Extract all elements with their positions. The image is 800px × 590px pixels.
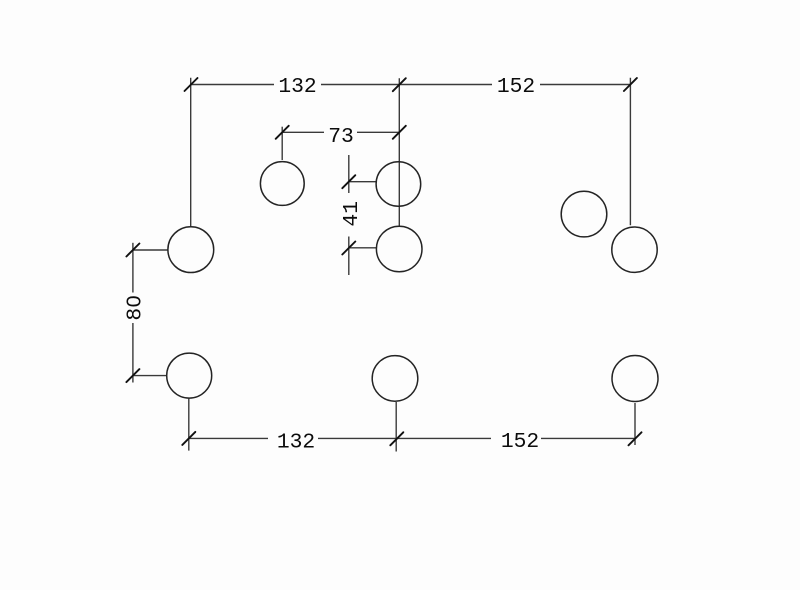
wire extension line middle xyxy=(398,78,400,226)
hole circle A2 xyxy=(376,162,421,207)
tick top-middle xyxy=(393,78,406,91)
tick top-left xyxy=(185,78,198,91)
tick bottom-middle xyxy=(390,432,403,445)
wire 41-dim line upper xyxy=(348,155,350,193)
hole circle A3 xyxy=(376,226,422,272)
wire extension line right xyxy=(629,78,631,226)
wire 80-dim stub upper xyxy=(133,249,168,251)
tick 73-left xyxy=(276,126,289,139)
tick 41-lower xyxy=(342,242,355,255)
svg-text:152: 152 xyxy=(501,430,539,454)
wire bottom dimension line segment left xyxy=(189,437,268,439)
svg-text:132: 132 xyxy=(278,75,316,99)
wire top dimension line segment middle xyxy=(321,84,492,86)
hole circle C2 xyxy=(372,356,418,402)
tick 80-upper xyxy=(126,244,139,257)
tick 73-right xyxy=(393,126,406,139)
wire 73-dim extension line xyxy=(281,127,283,160)
wire 73-dim line right xyxy=(357,131,399,133)
tick 80-lower xyxy=(126,369,139,382)
wire bottom extension left xyxy=(188,399,190,451)
wire 41-dim stub upper xyxy=(349,181,376,183)
wire 80-dim stub lower xyxy=(133,375,167,377)
wire bottom extension middle xyxy=(395,402,397,452)
hole circle A1 xyxy=(260,162,304,206)
wire 41-dim line lower xyxy=(348,237,350,276)
tick top-right xyxy=(624,78,637,91)
wire 80-dim line lower xyxy=(132,323,134,383)
wire 41-dim stub lower xyxy=(349,247,377,249)
hole circle C1 xyxy=(167,353,212,398)
wire extension line left xyxy=(190,78,192,227)
svg-text:132: 132 xyxy=(277,430,315,454)
svg-text:152: 152 xyxy=(497,75,535,99)
svg-text:80: 80 xyxy=(123,295,147,321)
wire bottom extension right xyxy=(634,403,636,445)
hole circle A4 xyxy=(561,191,607,237)
hole circle B1 xyxy=(168,227,214,273)
tick bottom-left xyxy=(182,432,195,445)
wire top dimension line segment right xyxy=(540,84,630,86)
wire top dimension line segment left xyxy=(191,84,274,86)
wire bottom dimension line segment middle xyxy=(318,437,491,439)
tick bottom-right xyxy=(629,432,642,445)
wire 80-dim line upper xyxy=(132,243,134,293)
wire 73-dim line left xyxy=(282,131,324,133)
white cover over mono dotted zero xyxy=(131,299,135,303)
tick 41-upper xyxy=(342,175,355,188)
svg-text:73: 73 xyxy=(328,125,354,149)
svg-text:41: 41 xyxy=(340,201,364,227)
hole circle C3 xyxy=(612,356,658,402)
wire bottom dimension line segment right xyxy=(541,437,635,439)
hole circle A5 xyxy=(612,227,657,272)
